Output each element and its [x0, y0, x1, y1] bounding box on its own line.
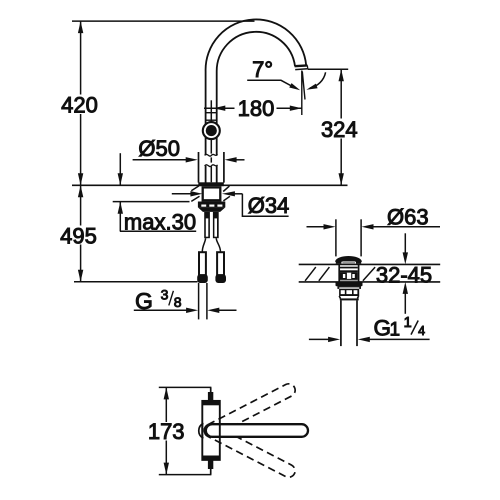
svg-text:G: G	[374, 316, 392, 341]
svg-text:324: 324	[321, 117, 358, 142]
svg-text:3: 3	[161, 287, 169, 303]
svg-text:1: 1	[390, 320, 401, 341]
svg-text:180: 180	[238, 96, 275, 121]
svg-text:4: 4	[418, 324, 425, 338]
svg-text:32-45: 32-45	[376, 262, 432, 287]
svg-text:1: 1	[404, 315, 412, 331]
svg-text:7°: 7°	[252, 57, 273, 82]
svg-text:420: 420	[61, 93, 98, 118]
svg-text:173: 173	[148, 419, 185, 444]
svg-text:Ø34: Ø34	[248, 193, 290, 218]
svg-text:8: 8	[174, 294, 182, 310]
svg-text:495: 495	[60, 224, 97, 249]
svg-text:Ø63: Ø63	[387, 204, 429, 229]
svg-text:Ø50: Ø50	[138, 136, 180, 161]
